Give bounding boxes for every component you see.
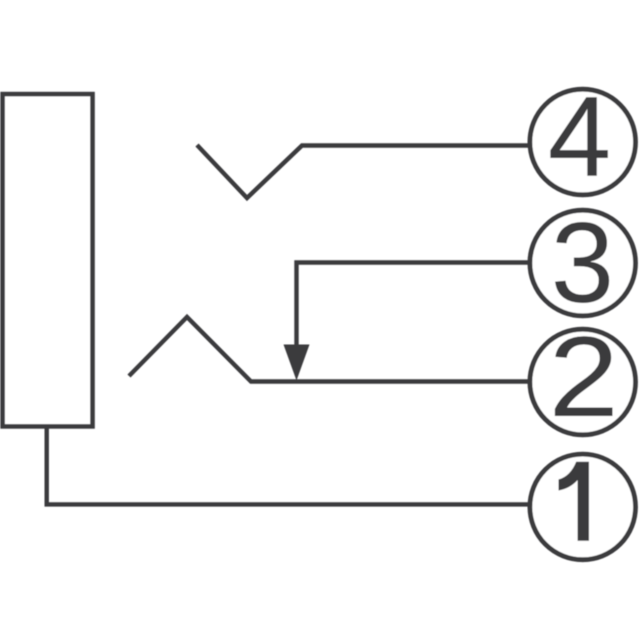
svg-text:4: 4 xyxy=(548,74,611,201)
wire pin 1 lead xyxy=(47,426,531,504)
svg-text:3: 3 xyxy=(551,200,614,327)
switch contact pin 4 xyxy=(197,145,531,198)
terminal circle 3 xyxy=(530,210,636,316)
svg-text:2: 2 xyxy=(549,313,619,441)
terminal circle 4 xyxy=(530,89,636,195)
connector body J1 xyxy=(3,94,93,427)
wire pin 3 xyxy=(297,263,532,353)
pin number 1 xyxy=(559,462,590,541)
arrowhead pin 3 wiper xyxy=(284,345,310,381)
terminal circle 2 xyxy=(530,329,636,435)
tip contact pin 2 xyxy=(129,317,531,382)
terminal circle 1 xyxy=(530,454,636,560)
